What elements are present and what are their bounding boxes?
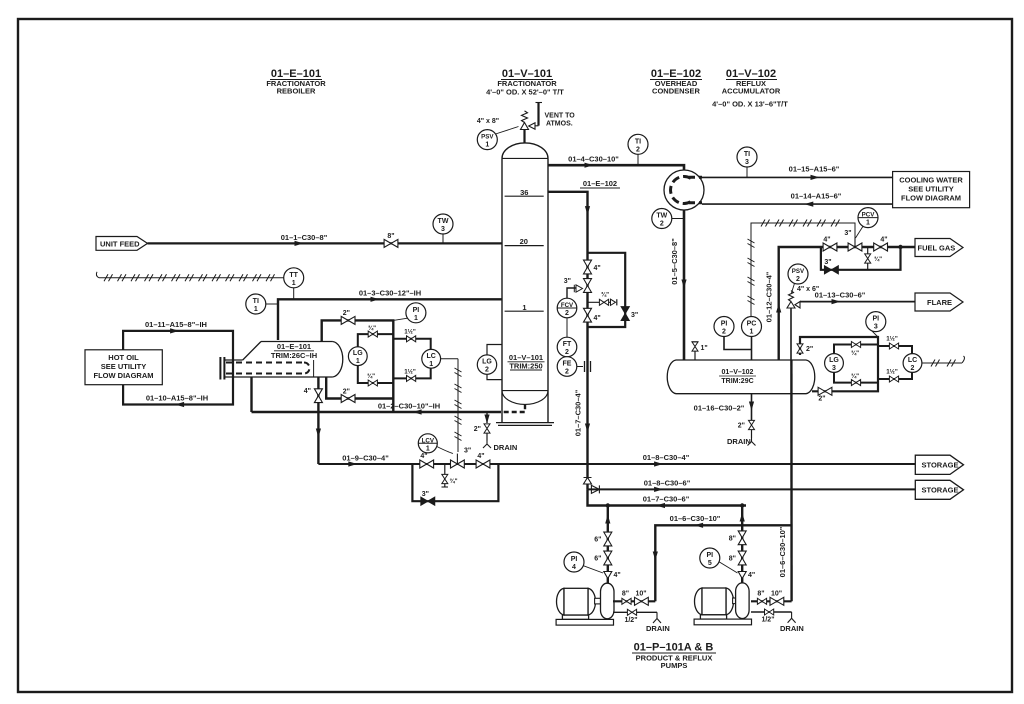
pipe 01-3-C30-12"-IH column bottoms to reboiler	[278, 299, 502, 340]
svg-text:4": 4"	[594, 265, 601, 272]
svg-text:PI: PI	[413, 307, 420, 314]
instrument PCV-1	[856, 208, 879, 238]
check symbol on 01-7 vertical	[584, 478, 592, 485]
svg-text:01–E–101: 01–E–101	[277, 342, 311, 351]
svg-text:1½": 1½"	[404, 368, 416, 375]
instrument LG-3	[825, 354, 844, 373]
valve 2" bridle top	[797, 344, 803, 353]
svg-text:LG: LG	[829, 357, 839, 364]
svg-text:01–2–C30–10"–IH: 01–2–C30–10"–IH	[378, 402, 440, 411]
svg-text:2: 2	[660, 221, 664, 228]
svg-text:2: 2	[565, 369, 569, 376]
valve 8" pump B discharge upper	[738, 531, 746, 545]
svg-text:8": 8"	[757, 591, 764, 598]
svg-text:PI: PI	[706, 552, 713, 559]
title equipment 01-E-102	[650, 68, 702, 96]
instrument LC-2	[903, 354, 922, 373]
valve 10" pump A suction	[635, 597, 649, 605]
signal line to TT-1 (capillary)	[96, 272, 283, 278]
valve 4" after LCV	[476, 460, 490, 468]
pipe 01-6-C30-10" pump suction header	[655, 525, 791, 601]
svg-text:01–3–C30–12"–IH: 01–3–C30–12"–IH	[359, 289, 421, 298]
svg-text:CONDENSER: CONDENSER	[652, 87, 701, 96]
svg-text:2": 2"	[738, 423, 745, 430]
title equipment 01-V-101	[486, 68, 564, 97]
exchanger 01-E-102 condenser	[664, 170, 704, 210]
PCV bypass loop	[821, 247, 901, 270]
svg-text:PI: PI	[571, 556, 578, 563]
pump 01-P-101B coupling	[733, 598, 739, 604]
valve 2" bottom rail	[341, 395, 355, 403]
pipe 01-10-A15-8"-IH hot oil return	[123, 360, 233, 405]
svg-text:STORAGE: STORAGE	[922, 486, 959, 495]
signal line PC-1 to PCV-1	[751, 223, 855, 316]
instrument LC-1	[422, 349, 441, 368]
junction fuel gas	[898, 245, 902, 249]
svg-text:UNIT FEED: UNIT FEED	[100, 239, 140, 248]
pipe 01-E-102 draw line from column	[548, 192, 588, 490]
standpipe top rail	[322, 320, 394, 412]
svg-text:01–11–A15–8"–IH: 01–11–A15–8"–IH	[145, 320, 207, 329]
valve 8" pump B discharge lower	[738, 551, 746, 565]
instrument PSV-2	[788, 264, 808, 293]
valve 3/4" LG-3 top	[851, 342, 860, 348]
svg-text:01–1–C30–8": 01–1–C30–8"	[281, 233, 328, 242]
pipe accumulator bottom outlet	[790, 360, 793, 601]
svg-text:1: 1	[485, 142, 489, 149]
instrument LG-2	[477, 355, 496, 374]
pump 01-P-101A coupling	[595, 598, 601, 604]
instrument PI-5	[700, 548, 738, 573]
svg-text:1": 1"	[701, 345, 708, 352]
svg-text:1: 1	[522, 303, 526, 312]
svg-text:01–8–C30–4": 01–8–C30–4"	[643, 453, 690, 462]
svg-text:4'–0" OD. X 52'–0" T/T: 4'–0" OD. X 52'–0" T/T	[486, 88, 564, 97]
standpipe bottom rail	[326, 377, 393, 399]
svg-text:2: 2	[722, 329, 726, 336]
instrument FE-2 with orifice flanges	[557, 357, 590, 377]
pipe reboiler bottom outlet to 01-9	[317, 377, 319, 464]
valve 8" on feed line	[384, 239, 398, 247]
svg-text:2: 2	[911, 365, 915, 372]
gauge glass LG-1 piping	[358, 334, 394, 347]
valve 4" reboiler outlet	[314, 389, 322, 403]
instrument LCV-1	[418, 434, 453, 454]
svg-text:VENT TO: VENT TO	[545, 113, 576, 120]
svg-text:¾": ¾"	[874, 256, 882, 263]
pipe 01-9-C30-4" / 01-8-C30-4" to storage	[318, 463, 915, 465]
valve 2" top rail	[341, 316, 355, 324]
svg-text:PI: PI	[721, 321, 728, 328]
instrument LG-1	[348, 347, 367, 366]
relief valve PSV-2 4"x6"	[790, 308, 792, 360]
svg-text:1: 1	[356, 358, 360, 365]
svg-text:LC: LC	[427, 353, 436, 360]
svg-text:2": 2"	[806, 346, 813, 353]
pipe reboiler feed from 01-2 line	[250, 377, 252, 412]
svg-text:01–7–C30–4": 01–7–C30–4"	[574, 389, 583, 436]
svg-text:FCV: FCV	[561, 302, 574, 309]
relief valve PSV-1	[521, 111, 539, 130]
svg-text:DRAIN: DRAIN	[646, 624, 670, 633]
svg-text:TRIM:29C: TRIM:29C	[721, 378, 753, 385]
pipe 01-4-C30-10" overhead vapour	[548, 165, 684, 172]
instrument TT-1	[284, 268, 304, 300]
svg-text:1½": 1½"	[404, 329, 416, 336]
svg-text:3": 3"	[422, 491, 429, 498]
gauge glass LG-3 piping	[834, 345, 878, 354]
pump B discharge	[741, 506, 743, 583]
svg-text:01–E–102: 01–E–102	[583, 179, 617, 188]
pipe 01-2-C30-10"-IH reboiler return	[252, 411, 502, 413]
valve 1-1/2" LC-1 top	[407, 336, 416, 342]
svg-text:1: 1	[750, 329, 754, 336]
svg-text:3": 3"	[844, 230, 851, 237]
instrument TI-1	[246, 294, 278, 314]
svg-text:TW: TW	[656, 213, 667, 220]
signal line LC-1 to LCV-1	[441, 359, 458, 452]
title equipment 01-V-102	[712, 68, 788, 109]
instrument TW-3	[433, 214, 453, 243]
svg-text:SEE UTILITY: SEE UTILITY	[908, 185, 953, 194]
svg-text:8": 8"	[622, 591, 629, 598]
svg-text:4": 4"	[304, 388, 311, 395]
pipe 01-12-C30-4" accumulator vapour to fuel gas	[779, 247, 915, 360]
instrument PSV-1	[477, 127, 518, 150]
reboiler tube bundle (dashed)	[226, 363, 310, 374]
svg-text:4": 4"	[594, 315, 601, 322]
gauge glass LG-2 piping	[487, 345, 502, 356]
svg-text:01–10–A15–8"–IH: 01–10–A15–8"–IH	[146, 394, 208, 403]
pump 01-P-101A casing	[601, 583, 615, 619]
svg-text:4": 4"	[823, 237, 830, 244]
valve 2" accumulator drain	[749, 420, 755, 429]
instrument TI-3	[737, 147, 757, 177]
FCV bypass loop	[588, 253, 626, 327]
svg-text:2: 2	[796, 276, 800, 283]
svg-text:DRAIN: DRAIN	[780, 624, 804, 633]
LCV bypass loop	[412, 464, 498, 501]
svg-text:6": 6"	[594, 537, 601, 544]
valve 1-1/2" LC-2 top	[889, 343, 898, 349]
svg-text:ACCUMULATOR: ACCUMULATOR	[722, 87, 781, 96]
svg-text:01–12–C30–4": 01–12–C30–4"	[765, 271, 774, 322]
svg-text:FT: FT	[563, 341, 572, 348]
svg-text:¾": ¾"	[851, 350, 859, 357]
svg-text:01–4–C30–10": 01–4–C30–10"	[568, 155, 619, 164]
svg-text:1: 1	[429, 361, 433, 368]
pipe 01-8-C30-6" to storage	[588, 488, 916, 490]
svg-text:¾": ¾"	[601, 292, 609, 299]
valve 4" upper on draw line	[584, 260, 592, 274]
svg-text:2": 2"	[343, 310, 350, 317]
valve 3/4" LG-3 bottom	[851, 380, 860, 386]
plugged vent 1" on accumulator	[694, 351, 696, 360]
valve 3/4" LG-1 top	[368, 331, 377, 337]
svg-text:TI: TI	[253, 298, 259, 305]
svg-text:3: 3	[874, 324, 878, 331]
column bottom outlet dashed	[501, 404, 525, 412]
off-page UNIT FEED	[96, 237, 148, 251]
svg-text:4": 4"	[477, 453, 484, 460]
svg-text:TRIM:26C–IH: TRIM:26C–IH	[271, 351, 317, 360]
valve 1-1/2" LC-1 bottom	[407, 375, 416, 381]
svg-text:TRIM:250: TRIM:250	[509, 361, 542, 370]
svg-text:FLOW DIAGRAM: FLOW DIAGRAM	[901, 194, 961, 203]
svg-text:4: 4	[572, 564, 576, 571]
instrument FCV-2	[557, 298, 577, 318]
svg-text:1: 1	[292, 280, 296, 287]
svg-text:COOLING WATER: COOLING WATER	[899, 176, 963, 185]
valve 4" fuel gas upstream	[823, 243, 837, 251]
svg-text:1/2": 1/2"	[761, 617, 774, 624]
svg-text:PCV: PCV	[862, 212, 876, 219]
column top nozzle	[523, 129, 525, 144]
svg-text:1: 1	[254, 306, 258, 313]
off-page STORAGE arrow 2	[915, 480, 963, 499]
pump A drain	[613, 611, 657, 613]
svg-text:PSV: PSV	[792, 268, 805, 275]
svg-text:¾": ¾"	[851, 373, 859, 380]
svg-text:36: 36	[520, 188, 528, 197]
valve 6" pump A discharge upper	[604, 532, 612, 546]
pump 01-P-101B casing	[736, 583, 750, 619]
svg-text:01–14–A15–6": 01–14–A15–6"	[791, 191, 842, 200]
tray 1	[505, 310, 544, 312]
instrument PC-1	[742, 317, 762, 361]
svg-text:01–13–C30–6": 01–13–C30–6"	[815, 291, 866, 300]
valve 6" pump A discharge lower	[604, 551, 612, 565]
signal line from LC-2 to off-diagram	[922, 356, 964, 363]
valve 4" fuel gas downstream	[874, 243, 888, 251]
valve 3/4" between fuel gas line and bypass	[867, 247, 869, 270]
svg-text:2": 2"	[343, 388, 350, 395]
plugged drain 3/4" on draw line	[588, 301, 611, 303]
vessel 01-V-102 reflux accumulator	[667, 360, 815, 394]
svg-text:3": 3"	[464, 448, 471, 455]
svg-text:4'–0" OD. X 13'–6"T/T: 4'–0" OD. X 13'–6"T/T	[712, 100, 788, 109]
svg-text:FLARE: FLARE	[927, 298, 952, 307]
svg-text:REBOILER: REBOILER	[277, 87, 316, 96]
valve 10" pump B suction	[770, 597, 784, 605]
pipe 01-5-C30-8" condenser outlet	[683, 210, 686, 360]
svg-text:1: 1	[866, 220, 870, 227]
valve 2" drain	[484, 424, 490, 433]
valve 3/4" LG-1 bottom	[368, 380, 377, 386]
svg-text:1/2": 1/2"	[624, 617, 637, 624]
off-page HOT OIL utility box	[85, 350, 162, 385]
svg-text:8": 8"	[729, 535, 736, 542]
svg-text:1½": 1½"	[886, 369, 898, 376]
svg-text:1½": 1½"	[886, 336, 898, 343]
svg-text:FE: FE	[563, 361, 572, 368]
FCV-2 takeoff 3"	[567, 288, 581, 298]
svg-text:5: 5	[708, 560, 712, 567]
svg-text:01–8–C30–6": 01–8–C30–6"	[644, 479, 691, 488]
pipe 01-11-A15-8"-IH hot oil supply	[123, 331, 233, 360]
svg-text:TI: TI	[744, 151, 750, 158]
pipe 01-15-A15-6" cooling water supply	[701, 176, 893, 178]
column bottom drain branch	[486, 412, 488, 423]
pumps title 01-P-101A & B	[632, 642, 716, 671]
svg-text:01–9–C30–4": 01–9–C30–4"	[342, 454, 389, 463]
svg-text:2": 2"	[474, 426, 481, 433]
svg-text:PSV: PSV	[481, 134, 494, 141]
level controller LC-1 piping	[393, 339, 430, 350]
vent pipe to atmosphere	[537, 103, 539, 126]
off-page FUEL GAS arrow	[915, 239, 963, 257]
valve gate at FCV takeoff	[584, 279, 592, 293]
control valve PCV-1 3"	[848, 243, 862, 251]
svg-text:01–16–C30–2": 01–16–C30–2"	[694, 404, 745, 413]
svg-text:FUEL GAS: FUEL GAS	[918, 243, 956, 252]
check valve on 01-8 line	[591, 485, 599, 493]
title equipment 01-E-101	[266, 68, 326, 96]
svg-text:4": 4"	[748, 572, 755, 579]
svg-text:20: 20	[520, 237, 528, 246]
svg-text:TT: TT	[289, 272, 298, 279]
reducer 8" pump A suction	[622, 598, 631, 604]
svg-text:3": 3"	[631, 312, 638, 319]
svg-text:PUMPS: PUMPS	[661, 661, 688, 670]
pipe 01-7-C30-6" pump discharge header	[588, 489, 747, 505]
svg-text:1: 1	[414, 315, 418, 322]
svg-text:2: 2	[565, 349, 569, 356]
reducer 8" pump B suction	[757, 598, 766, 604]
pipe 01-13-C30-6" to flare	[800, 301, 915, 303]
drain valve 3/4" on 01-9 line	[444, 464, 446, 487]
svg-text:DRAIN: DRAIN	[727, 437, 751, 446]
ground under column	[496, 422, 554, 424]
valve 3" bypass	[421, 497, 435, 505]
svg-text:2": 2"	[818, 396, 825, 403]
svg-text:8": 8"	[387, 233, 394, 240]
pipe 01-1-C30-8" unit feed line	[148, 242, 503, 244]
reducer 4" pump A	[604, 572, 612, 579]
svg-text:¾": ¾"	[368, 325, 376, 332]
pump 01-P-101A base	[556, 619, 613, 625]
svg-text:DRAIN: DRAIN	[494, 443, 518, 452]
svg-text:PC: PC	[747, 321, 757, 328]
svg-text:01–5–C30–8": 01–5–C30–8"	[670, 238, 679, 285]
svg-text:3": 3"	[824, 259, 831, 266]
svg-text:10": 10"	[635, 591, 646, 598]
svg-text:1: 1	[426, 445, 430, 452]
svg-text:3: 3	[745, 159, 749, 166]
svg-text:2: 2	[565, 310, 569, 317]
svg-text:TI: TI	[635, 138, 641, 145]
off-page COOLING WATER box	[893, 172, 970, 208]
svg-text:SEE UTILITY: SEE UTILITY	[101, 362, 146, 371]
svg-text:3: 3	[441, 226, 445, 233]
svg-text:STORAGE: STORAGE	[922, 461, 959, 470]
svg-text:8": 8"	[729, 556, 736, 563]
svg-text:LC: LC	[908, 357, 917, 364]
off-page STORAGE arrow 1	[915, 455, 963, 474]
pump 01-P-101B motor	[695, 588, 734, 619]
svg-text:01–P–101A & B: 01–P–101A & B	[634, 642, 714, 654]
pump B drain	[751, 611, 792, 613]
control valve LCV-1 3"	[451, 460, 465, 468]
svg-text:4" x 8": 4" x 8"	[477, 118, 499, 125]
valve 4" before LCV	[420, 460, 434, 468]
instrument PI-1	[393, 303, 426, 323]
svg-text:3: 3	[832, 365, 836, 372]
instrument PI-4	[564, 552, 603, 573]
svg-text:LCV: LCV	[422, 437, 435, 444]
off-page FLARE arrow	[915, 293, 963, 311]
valve 1-1/2" LC-2 bottom	[889, 376, 898, 382]
instrument PI-2	[714, 317, 752, 350]
valve 4" lower on draw line	[584, 308, 592, 322]
instrument FT-2	[557, 318, 577, 357]
pipe 01-14-A15-6" cooling water return	[702, 203, 893, 205]
reboiler internal label	[271, 342, 317, 360]
vessel 01-E-101 reboiler	[220, 342, 342, 380]
tray 36	[505, 195, 544, 197]
svg-text:3": 3"	[564, 278, 571, 285]
instrument TI-2	[628, 134, 648, 165]
instrument TW-2	[652, 209, 684, 229]
svg-text:10": 10"	[771, 591, 782, 598]
pump 01-P-101A motor	[557, 588, 596, 619]
level controller LC-2 piping	[878, 346, 912, 354]
svg-text:4": 4"	[880, 237, 887, 244]
valve 3" FCV bypass	[621, 307, 629, 321]
tray 20	[505, 245, 544, 247]
svg-text:PI: PI	[872, 316, 879, 323]
instrument PI-3	[866, 312, 886, 337]
svg-text:01–V–102: 01–V–102	[722, 369, 754, 376]
svg-text:¾": ¾"	[367, 373, 375, 380]
reducer 4" pump B	[738, 572, 746, 579]
svg-text:01–7–C30–6": 01–7–C30–6"	[643, 495, 690, 504]
valve 2" bridle bottom	[818, 387, 832, 395]
svg-text:ATMOS.: ATMOS.	[546, 121, 573, 128]
svg-text:4": 4"	[420, 453, 427, 460]
svg-text:01–6–C30–10": 01–6–C30–10"	[670, 514, 721, 523]
drain symbol	[483, 441, 491, 449]
accumulator level bridle	[800, 337, 878, 391]
svg-text:FLOW DIAGRAM: FLOW DIAGRAM	[94, 371, 154, 380]
svg-text:TW: TW	[438, 218, 449, 225]
svg-text:4": 4"	[614, 572, 621, 579]
column internal label 01-V-101 TRIM:250	[508, 353, 545, 370]
vessel 01-V-101 fractionator column	[502, 143, 548, 422]
svg-text:01–15–A15–6": 01–15–A15–6"	[789, 165, 840, 174]
svg-text:6": 6"	[594, 556, 601, 563]
svg-text:01–6–C30–10": 01–6–C30–10"	[778, 526, 787, 577]
pipe 01-16-C30-2" accumulator drain	[751, 394, 753, 420]
svg-text:LG: LG	[353, 350, 363, 357]
pump A discharge	[607, 506, 609, 584]
valve 3" PCV bypass	[825, 266, 839, 274]
svg-text:LG: LG	[482, 359, 492, 366]
svg-text:HOT OIL: HOT OIL	[108, 353, 139, 362]
svg-text:2: 2	[485, 367, 489, 374]
pump 01-P-101B base	[694, 619, 751, 625]
pump B suction from accumulator downcomer	[751, 600, 792, 602]
svg-text:¾": ¾"	[450, 478, 458, 485]
pump A suction from header	[613, 600, 655, 602]
svg-text:2: 2	[636, 146, 640, 153]
